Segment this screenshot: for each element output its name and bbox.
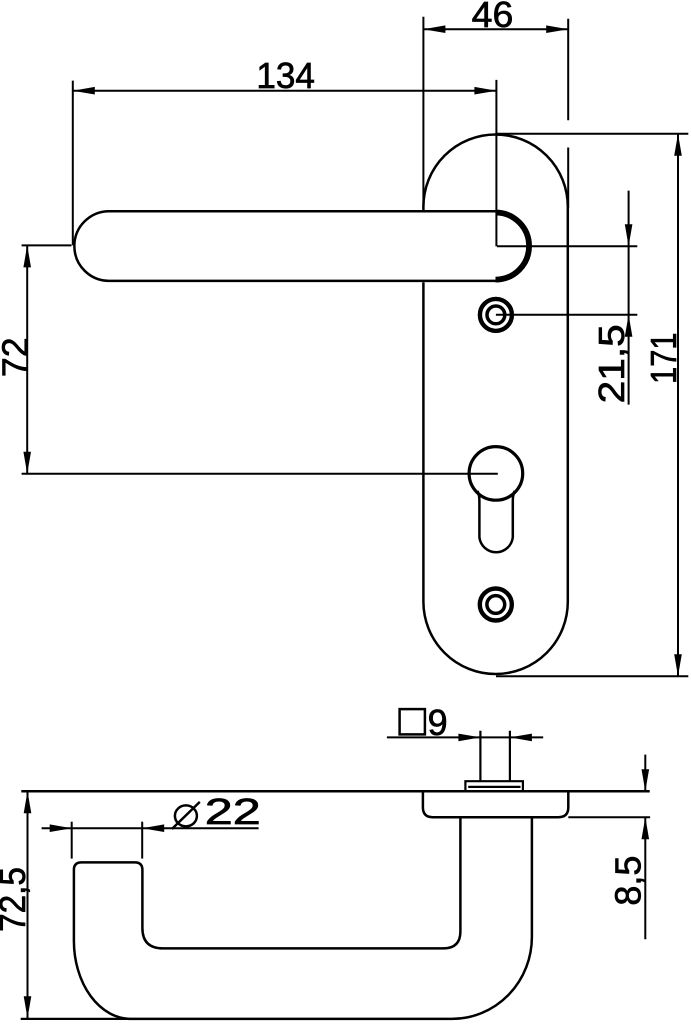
dim 8,5: upper arrowhead bbox=[642, 769, 650, 791]
dim 8,5: lower dimension line bbox=[644, 817, 646, 939]
dim 134: dimension line bbox=[73, 90, 497, 92]
front view: lever handle bar bbox=[74, 211, 495, 281]
svg-text:46: 46 bbox=[472, 0, 514, 35]
dim 134: left arrowhead bbox=[73, 87, 95, 95]
svg-text:72,5: 72,5 bbox=[0, 867, 33, 932]
dim 72,5: dimension line bbox=[27, 791, 29, 1018]
dim dia22: diameter symbol circle bbox=[175, 805, 197, 826]
svg-text:22: 22 bbox=[205, 792, 261, 832]
dim square9: value text bbox=[428, 702, 448, 743]
dim square9: square symbol bbox=[400, 709, 425, 734]
dim dia22: diameter symbol slash bbox=[172, 802, 200, 829]
dim 72,5: top arrowhead bbox=[24, 791, 32, 813]
dim 72: bottom arrowhead bbox=[23, 452, 31, 474]
front view: lever neck thick end arc bbox=[496, 213, 530, 280]
dim dia22: dimension line bbox=[42, 827, 259, 829]
side view: lever handle profile outline bbox=[74, 816, 532, 1019]
dim 134: value text bbox=[256, 56, 315, 97]
dim 72,5: value text bbox=[0, 867, 33, 932]
dim dia22: right arrowhead bbox=[142, 824, 164, 832]
dim 171: dimension line bbox=[677, 134, 679, 677]
dim 134: left extension line bbox=[72, 81, 74, 246]
dim 171: bottom extension line bbox=[496, 675, 688, 677]
svg-text:8,5: 8,5 bbox=[608, 856, 649, 906]
dim dia22: left arrowhead bbox=[50, 824, 72, 832]
dim 134: right arrowhead bbox=[474, 87, 496, 95]
dim 72: bottom extension line to keyhole centre bbox=[22, 473, 498, 475]
dim 171: top arrowhead bbox=[674, 134, 682, 156]
dim 72: top arrowhead bbox=[23, 245, 31, 267]
side view: door face line bbox=[21, 790, 649, 793]
dim 46: right extension line with break bbox=[567, 19, 569, 208]
dim 21,5: value text bbox=[592, 324, 632, 403]
front view: upper screw inner circle bbox=[487, 306, 505, 324]
front view: euro profile cylinder hole circle bbox=[469, 447, 523, 501]
dim square9: right arrowhead bbox=[510, 734, 532, 742]
front view: euro profile cylinder hole stem bbox=[478, 491, 515, 552]
front view: backplate obround outline bbox=[423, 135, 567, 675]
dim 46: right arrowhead bbox=[546, 25, 568, 33]
dim dia22: value text bbox=[205, 792, 261, 832]
svg-text:9: 9 bbox=[428, 702, 448, 743]
dim 8,5: value text bbox=[608, 856, 649, 906]
dim 72: top extension line bbox=[22, 244, 72, 246]
dim 171: bottom arrowhead bbox=[674, 654, 682, 676]
dim 171: top extension line bbox=[496, 133, 689, 135]
dim 171: value text bbox=[645, 333, 685, 384]
side view: spindle collar bbox=[465, 781, 523, 791]
dim square9: dimension line bbox=[387, 736, 543, 738]
dim 46: left extension line bbox=[422, 17, 424, 207]
svg-text:21,5: 21,5 bbox=[592, 324, 632, 403]
front view: upper screw outer circle bbox=[480, 299, 512, 331]
dim square9: left arrowhead bbox=[458, 734, 480, 742]
dim 72,5: bottom extension line bbox=[21, 1018, 130, 1020]
dim 21,5: handle centreline extension bbox=[497, 245, 637, 247]
dim 8,5: bottom extension line bbox=[568, 816, 650, 818]
dim 46: dimension line bbox=[423, 28, 568, 30]
dim 134: right extension line bbox=[495, 80, 497, 246]
dim 72: value text bbox=[0, 337, 35, 377]
dim 21,5: lower arrowhead bbox=[625, 315, 633, 337]
dim 46: left arrowhead bbox=[423, 25, 445, 33]
dim dia22: left extension line bbox=[71, 822, 73, 859]
svg-text:171: 171 bbox=[645, 333, 685, 384]
svg-text:134: 134 bbox=[256, 56, 315, 97]
front view: lower screw outer circle bbox=[480, 589, 512, 621]
dim dia22: right extension line bbox=[141, 822, 143, 859]
dim 21,5: dimension line bbox=[628, 191, 630, 405]
dim 72,5: bottom arrowhead bbox=[24, 996, 32, 1018]
dim 46: value text bbox=[472, 0, 514, 35]
svg-text:72: 72 bbox=[0, 337, 35, 377]
side view: backplate edge profile bbox=[423, 791, 568, 817]
side view: square spindle shaft bbox=[480, 731, 510, 782]
dim 21,5: screw centreline extension bbox=[496, 314, 637, 316]
dim 8,5: lower arrowhead bbox=[642, 817, 650, 839]
front view: lower screw inner circle bbox=[487, 596, 505, 614]
dim 72: dimension line bbox=[26, 245, 28, 473]
dim 8,5: upper dimension line bbox=[644, 755, 646, 792]
dim 21,5: upper arrowhead bbox=[625, 224, 633, 246]
